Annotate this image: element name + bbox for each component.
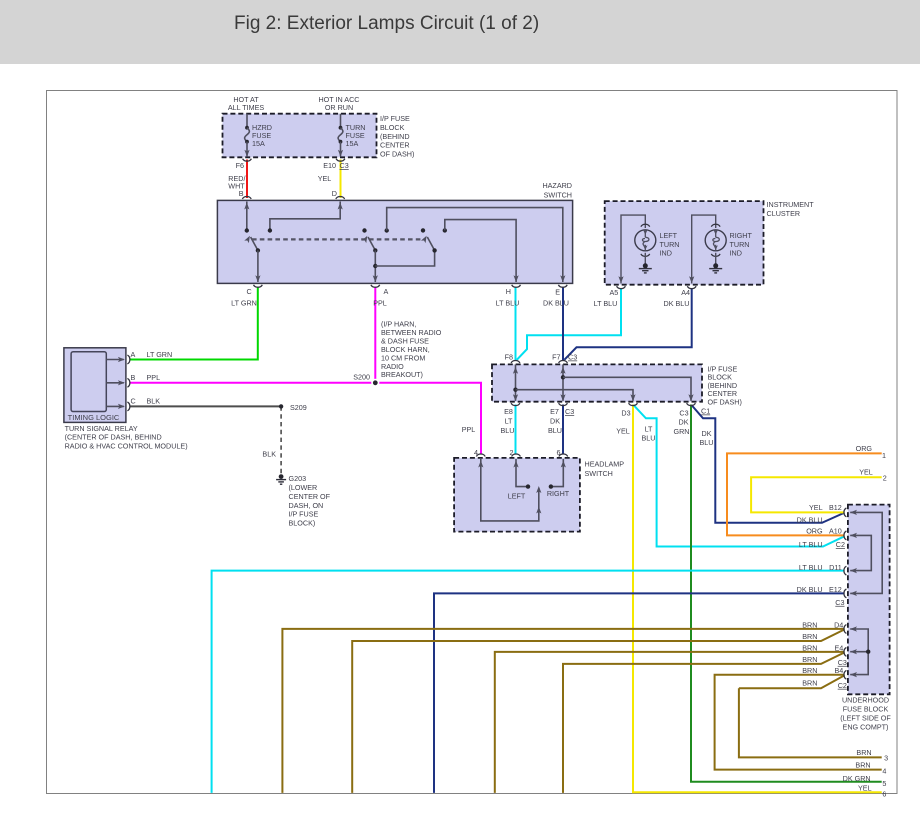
svg-text:(LEFT SIDE OF: (LEFT SIDE OF <box>840 714 891 723</box>
svg-text:LT: LT <box>505 417 513 426</box>
svg-text:LT: LT <box>645 425 653 434</box>
svg-text:BLK: BLK <box>147 397 161 406</box>
svg-text:OF DASH): OF DASH) <box>708 397 742 406</box>
svg-text:LT GRN: LT GRN <box>231 299 257 308</box>
svg-text:PPL: PPL <box>147 373 161 382</box>
svg-text:C2: C2 <box>838 681 847 690</box>
svg-text:C3: C3 <box>565 407 574 416</box>
svg-text:DK BLU: DK BLU <box>543 299 569 308</box>
svg-text:UNDERHOOD: UNDERHOOD <box>842 695 889 704</box>
svg-text:BLOCK: BLOCK <box>380 123 405 132</box>
svg-text:LEFT: LEFT <box>508 492 526 501</box>
svg-text:B: B <box>131 373 136 382</box>
svg-text:4: 4 <box>474 448 478 457</box>
svg-text:DK: DK <box>679 417 689 426</box>
svg-text:F8: F8 <box>505 353 513 362</box>
svg-text:PPL: PPL <box>373 299 387 308</box>
svg-text:LT BLU: LT BLU <box>799 563 823 572</box>
svg-text:BRN: BRN <box>802 620 817 629</box>
svg-text:5: 5 <box>882 779 886 788</box>
svg-text:1: 1 <box>882 451 886 460</box>
svg-text:DASH, ON: DASH, ON <box>289 501 324 510</box>
svg-text:B4: B4 <box>835 666 844 675</box>
svg-text:BRN: BRN <box>856 748 871 757</box>
svg-text:A4: A4 <box>681 288 690 297</box>
svg-text:DK BLU: DK BLU <box>664 299 690 308</box>
svg-text:CENTER OF: CENTER OF <box>289 492 331 501</box>
svg-text:BLU: BLU <box>548 426 562 435</box>
svg-text:BLK: BLK <box>262 450 276 459</box>
svg-text:YEL: YEL <box>858 783 872 792</box>
svg-text:OR RUN: OR RUN <box>325 103 353 112</box>
svg-text:HEADLAMP: HEADLAMP <box>585 460 625 469</box>
svg-text:BLU: BLU <box>642 434 656 443</box>
svg-text:ENG COMPT): ENG COMPT) <box>843 723 889 732</box>
svg-text:E: E <box>555 288 560 297</box>
svg-text:E4: E4 <box>835 644 844 653</box>
svg-text:Fig 2: Exterior Lamps Circuit: Fig 2: Exterior Lamps Circuit (1 of 2) <box>234 13 539 34</box>
svg-text:C3: C3 <box>568 353 577 362</box>
svg-text:LT BLU: LT BLU <box>594 299 618 308</box>
svg-text:ORG: ORG <box>856 444 873 453</box>
svg-text:15A: 15A <box>346 139 359 148</box>
svg-text:DK BLU: DK BLU <box>797 515 823 524</box>
svg-text:S209: S209 <box>290 403 307 412</box>
svg-text:ALL TIMES: ALL TIMES <box>228 103 265 112</box>
svg-text:INSTRUMENT: INSTRUMENT <box>767 200 815 209</box>
svg-text:F6: F6 <box>236 161 244 170</box>
svg-text:DK BLU: DK BLU <box>797 585 823 594</box>
svg-text:HAZARD: HAZARD <box>542 181 572 190</box>
svg-text:G203: G203 <box>289 474 307 483</box>
svg-text:E12: E12 <box>829 585 842 594</box>
svg-text:TURN SIGNAL RELAY: TURN SIGNAL RELAY <box>65 424 138 433</box>
svg-text:E7: E7 <box>550 407 559 416</box>
svg-text:IND: IND <box>660 248 672 257</box>
svg-text:6: 6 <box>882 790 886 799</box>
svg-text:YEL: YEL <box>318 174 332 183</box>
svg-text:E8: E8 <box>504 407 513 416</box>
svg-text:ORG: ORG <box>806 527 823 536</box>
svg-text:(CENTER OF DASH, BEHIND: (CENTER OF DASH, BEHIND <box>65 433 162 442</box>
svg-text:(BEHIND: (BEHIND <box>380 132 410 141</box>
svg-text:YEL: YEL <box>809 503 823 512</box>
svg-text:BLU: BLU <box>501 426 515 435</box>
svg-text:D4: D4 <box>834 620 843 629</box>
svg-text:C3: C3 <box>340 161 349 170</box>
svg-text:B12: B12 <box>829 503 842 512</box>
svg-text:TIMING LOGIC: TIMING LOGIC <box>68 413 120 422</box>
svg-text:I/P FUSE: I/P FUSE <box>289 510 319 519</box>
svg-text:CLUSTER: CLUSTER <box>767 209 801 218</box>
svg-text:BRN: BRN <box>802 632 817 641</box>
svg-text:C3: C3 <box>835 598 844 607</box>
svg-text:D11: D11 <box>829 563 842 572</box>
svg-text:RADIO & HVAC CONTROL MODULE): RADIO & HVAC CONTROL MODULE) <box>65 441 188 450</box>
svg-text:A10: A10 <box>829 527 842 536</box>
svg-text:B: B <box>239 189 244 198</box>
svg-text:I/P FUSE: I/P FUSE <box>380 114 410 123</box>
svg-text:LT BLU: LT BLU <box>799 540 823 549</box>
svg-text:YEL: YEL <box>859 468 873 477</box>
svg-text:BRN: BRN <box>802 644 817 653</box>
svg-text:6: 6 <box>557 448 561 457</box>
svg-text:BLOCK): BLOCK) <box>289 518 316 527</box>
svg-text:D: D <box>332 189 337 198</box>
svg-text:A: A <box>131 350 136 359</box>
svg-text:BRN: BRN <box>802 655 817 664</box>
svg-text:YEL: YEL <box>616 427 630 436</box>
svg-text:OF DASH): OF DASH) <box>380 150 414 159</box>
svg-text:15A: 15A <box>252 139 265 148</box>
svg-text:CENTER: CENTER <box>380 141 410 150</box>
svg-text:E10: E10 <box>323 161 336 170</box>
svg-text:(LOWER: (LOWER <box>289 483 318 492</box>
svg-text:2: 2 <box>510 448 514 457</box>
svg-text:SWITCH: SWITCH <box>544 191 572 200</box>
svg-text:GRN: GRN <box>674 427 690 436</box>
svg-text:DK GRN: DK GRN <box>843 774 871 783</box>
svg-text:DK: DK <box>550 417 560 426</box>
svg-text:BRN: BRN <box>802 666 817 675</box>
svg-text:C: C <box>246 287 251 296</box>
svg-text:BRN: BRN <box>802 678 817 687</box>
svg-text:BLU: BLU <box>700 438 714 447</box>
svg-text:3: 3 <box>884 753 888 762</box>
svg-text:C3: C3 <box>679 408 688 417</box>
svg-text:BREAKOUT): BREAKOUT) <box>381 370 423 379</box>
svg-text:A: A <box>384 287 389 296</box>
svg-text:A5: A5 <box>610 288 619 297</box>
svg-text:BRN: BRN <box>855 760 870 769</box>
svg-text:S200: S200 <box>353 373 370 382</box>
svg-text:2: 2 <box>883 474 887 483</box>
svg-text:4: 4 <box>882 766 886 775</box>
svg-text:C: C <box>131 397 136 406</box>
svg-text:LT GRN: LT GRN <box>147 350 173 359</box>
svg-text:IND: IND <box>730 248 742 257</box>
svg-text:PPL: PPL <box>462 425 476 434</box>
svg-text:D3: D3 <box>621 408 630 417</box>
svg-text:RIGHT: RIGHT <box>547 489 570 498</box>
svg-text:FUSE BLOCK: FUSE BLOCK <box>843 704 889 713</box>
svg-text:C2: C2 <box>836 540 845 549</box>
svg-text:F7: F7 <box>552 353 560 362</box>
svg-text:SWITCH: SWITCH <box>585 469 613 478</box>
svg-text:H: H <box>506 287 511 296</box>
svg-text:LT BLU: LT BLU <box>496 299 520 308</box>
svg-text:C1: C1 <box>701 407 710 416</box>
